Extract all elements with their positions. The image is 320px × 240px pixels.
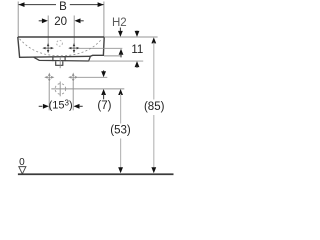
washbasin body outline — [18, 37, 104, 57]
85 dimension line — [153, 43, 155, 100]
15-3 extension line left — [48, 82, 50, 111]
15-3 extension line right — [72, 82, 74, 111]
B extension line left — [17, 2, 19, 37]
20 extension line left — [47, 16, 49, 45]
53 bottom arrow — [118, 167, 123, 173]
overflow dashed circle — [57, 40, 63, 46]
B extension line right — [103, 2, 105, 37]
B arrow right — [98, 2, 104, 7]
tap hole cross left — [43, 44, 53, 52]
fixing holes reference line — [78, 76, 108, 78]
drain tab — [56, 61, 63, 65]
B arrow left — [19, 2, 25, 7]
7 upper arrow — [103, 70, 105, 72]
svg-text:(153): (153) — [49, 98, 73, 111]
svg-text:11: 11 — [131, 44, 143, 56]
svg-text:(85): (85) — [144, 101, 165, 113]
svg-text:B: B — [59, 1, 67, 13]
svg-text:H2: H2 — [112, 17, 127, 29]
fixing hole cross right — [69, 74, 77, 81]
svg-text:(53): (53) — [110, 125, 131, 137]
svg-text:(7): (7) — [97, 100, 111, 112]
outlet height reference line — [51, 88, 124, 90]
dimension B line — [19, 4, 57, 6]
11 lower arrow — [135, 61, 140, 67]
20 extension line right — [73, 16, 75, 45]
drain box under basin — [53, 57, 65, 61]
tap height reference line — [79, 47, 122, 49]
dimension 20 line with outside arrows — [39, 20, 43, 22]
outlet dashed circle — [55, 84, 66, 95]
fixing hole cross left — [45, 74, 53, 81]
centerline stub below drain — [59, 66, 61, 69]
85 top arrow — [151, 37, 156, 43]
outlet vertical centerline — [59, 82, 61, 97]
85 bottom arrow — [151, 167, 156, 173]
floor line — [18, 173, 174, 175]
rim top reference line — [104, 36, 157, 38]
11 upper arrow — [136, 31, 138, 33]
washbasin rim top line — [18, 36, 104, 38]
tap height up arrow — [119, 49, 124, 55]
basin bottom right reference line — [104, 55, 122, 57]
H2 pointer arrow — [119, 28, 121, 33]
53 top arrow — [118, 89, 123, 95]
bowl underside lower outline — [34, 57, 91, 62]
tap hole cross right — [69, 44, 79, 52]
svg-text:20: 20 — [54, 16, 67, 28]
floor level triangle — [19, 167, 26, 174]
15-3 dimension with outside arrows — [39, 105, 43, 107]
basin lowest bottom reference line — [89, 60, 144, 62]
bowl interior dashed curve — [20, 39, 101, 56]
7 lower arrow — [101, 89, 106, 95]
53 dimension line — [120, 94, 122, 124]
centerline from drain to outlet — [59, 57, 61, 65]
